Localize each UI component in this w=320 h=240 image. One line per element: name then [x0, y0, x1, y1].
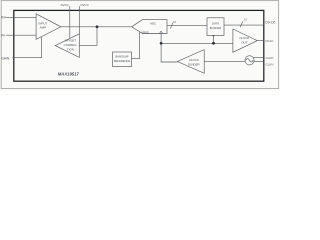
svg-text:D9–D0: D9–D0 — [265, 20, 275, 24]
svg-text:CORREC-: CORREC- — [64, 43, 78, 47]
svg-text:CLKP: CLKP — [266, 56, 274, 60]
block BANDGAP REFERENCE — [113, 52, 132, 67]
outer figure frame — [1, 1, 278, 89]
svg-text:BUFFER: BUFFER — [210, 26, 222, 30]
svg-text:VREF: VREF — [141, 30, 149, 34]
wire AVCC supply stub — [69, 6, 71, 38]
wire clock to ADC nub and from divider apex — [161, 34, 177, 63]
wire OVCC supply stub — [78, 6, 80, 34]
svg-text:OFFSET: OFFSET — [65, 38, 77, 42]
svg-text:OVCC: OVCC — [80, 3, 90, 7]
svg-text:DATA: DATA — [212, 21, 219, 25]
svg-text:TION: TION — [67, 48, 74, 52]
svg-text:DIVIDER: DIVIDER — [188, 63, 200, 67]
wire clock distribution line — [161, 42, 233, 44]
IC body box MAX19517 — [14, 10, 264, 81]
svg-text:CLKN: CLKN — [266, 63, 274, 67]
op-amp U1 INPUT AMP — [36, 14, 61, 40]
svg-text:REFERENCE: REFERENCE — [114, 59, 131, 63]
bus slash ADC out — [170, 23, 173, 29]
svg-text:IN+: IN+ — [1, 16, 6, 20]
svg-text:CLOCK: CLOCK — [239, 36, 249, 40]
wire IN- to input amp — [6, 34, 36, 36]
svg-text:AMP: AMP — [40, 26, 47, 30]
svg-text:GAIN: GAIN — [1, 56, 10, 60]
block DATA BUFFER — [207, 18, 224, 36]
node clock junction at ADC — [160, 42, 163, 45]
svg-text:AVCC: AVCC — [61, 3, 70, 7]
wire oscillator to CLKN pin — [254, 60, 264, 62]
wire divider input from oscillator — [204, 60, 245, 62]
svg-text:MAX19517: MAX19517 — [58, 72, 79, 77]
wire bandgap to ADC VREF — [132, 32, 140, 59]
pin clock input marker on ADC — [160, 31, 163, 33]
wire clock out to DCLK pin — [257, 40, 264, 42]
amp U2 OFFSET CORRECTION (points left) — [55, 34, 79, 58]
svg-text:CLOCK: CLOCK — [189, 58, 199, 62]
wire data buffer clock from divider node — [213, 35, 215, 37]
svg-text:IN-: IN- — [1, 33, 5, 37]
wire ADC output bus to data buffer — [167, 25, 207, 27]
buffer U4 CLOCK OUT (points right) — [233, 29, 257, 52]
svg-text:DCLK: DCLK — [266, 39, 274, 43]
svg-text:OUT: OUT — [241, 40, 247, 44]
block CLOCK DIVIDER (points left) — [177, 50, 204, 74]
ADC U3 pentagon — [132, 20, 167, 34]
wire main signal amp to ADC — [61, 26, 132, 28]
wire junction down to offset corrector — [79, 27, 97, 46]
wire data buffer to D9-D0 pins — [224, 24, 264, 26]
wire IN+ to input amp — [6, 16, 36, 18]
node signal junction — [96, 25, 99, 28]
oscillator X1 circle — [245, 56, 254, 65]
wire oscillator to CLKP pin — [253, 57, 264, 59]
wire GAIN to input amp bottom edge — [12, 37, 41, 58]
node clock junction at buffer — [212, 42, 215, 45]
svg-text:BANDGAP: BANDGAP — [115, 55, 128, 59]
bus slash output — [240, 21, 243, 27]
svg-text:ADC: ADC — [150, 21, 157, 25]
